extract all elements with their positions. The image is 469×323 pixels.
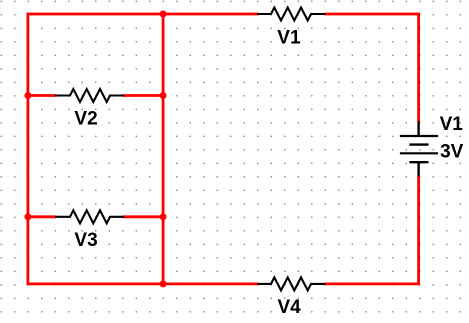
svg-text:V2: V2: [74, 108, 97, 129]
resistor V1 (top): [257, 8, 325, 21]
wire right vertical upper (top-right corner to battery + terminal): [417, 13, 420, 122]
wire left vertical (top-left corner to bottom-left corner): [26, 13, 29, 286]
battery plate long (positive): [400, 152, 438, 154]
junction node at middle wire / V3 branch: [160, 213, 167, 220]
wire V3 branch left segment: [28, 215, 57, 218]
battery V1 3V (right side): [400, 121, 438, 176]
svg-text:V4: V4: [278, 297, 302, 318]
wire middle vertical: [162, 13, 165, 286]
battery plate long (positive, top): [400, 135, 438, 137]
wire bottom-right segment (resistor V4 right lead to bottom-right corner): [324, 282, 420, 285]
resistor V3 (lower left branch): [55, 210, 124, 223]
battery bottom lead: [417, 162, 419, 176]
junction node at left wire / V2 branch: [24, 92, 31, 99]
wire right vertical lower (battery - terminal to bottom-right corner): [417, 176, 420, 285]
wire top-left segment (node: top-left corner to resistor V1 left lead): [27, 13, 259, 16]
svg-text:V1: V1: [440, 114, 464, 135]
svg-text:V1: V1: [277, 27, 301, 48]
wire bottom-left segment (bottom-left corner to resistor V4 left lead): [27, 282, 259, 285]
junction node at top wire / middle vertical: [160, 11, 167, 18]
junction node at middle wire / V2 branch: [160, 92, 167, 99]
junction node at bottom wire / middle vertical: [160, 280, 167, 287]
wire V2 branch right segment: [123, 94, 164, 97]
wire V3 branch right segment: [123, 215, 164, 218]
junction node at left wire / V3 branch: [24, 213, 31, 220]
svg-text:3V: 3V: [440, 141, 464, 162]
battery top lead: [417, 121, 419, 136]
wire V2 branch left segment: [28, 94, 57, 97]
resistor V4 (bottom): [257, 277, 325, 290]
battery plate short (negative): [409, 143, 428, 145]
wire top-right segment (resistor V1 right lead to top-right corner): [324, 13, 420, 16]
svg-text:V3: V3: [74, 230, 97, 251]
battery plate short (negative, bottom): [409, 161, 428, 163]
resistor V2 (upper left branch): [55, 89, 124, 102]
